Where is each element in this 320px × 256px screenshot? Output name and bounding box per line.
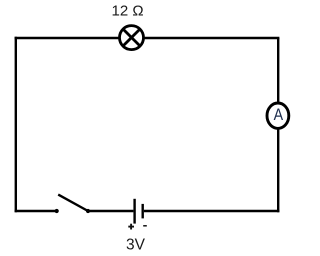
svg-text:12 Ω: 12 Ω (112, 2, 144, 19)
lamp cross stroke 2 (123, 29, 140, 46)
switch S1 right contact dot (86, 209, 90, 213)
battery B1 positive long plate (133, 199, 135, 224)
wire right side (277, 38, 279, 212)
wire top side (15, 37, 280, 39)
wire bottom segment switch to battery (88, 210, 133, 212)
switch S1 left contact dot (55, 209, 59, 213)
battery minus sign (143, 225, 147, 227)
wire bottom segment battery to right corner (144, 210, 280, 212)
switch S1 lever (58, 195, 88, 211)
svg-text:A: A (274, 106, 284, 124)
ammeter A ellipse (267, 103, 289, 128)
lamp cross stroke 1 (123, 29, 140, 46)
lamp U1 (12 ohm) circle (120, 26, 144, 50)
battery B1 negative short plate (141, 204, 143, 219)
wire left side (15, 37, 17, 212)
battery plus sign (128, 226, 134, 228)
svg-text:3V: 3V (126, 237, 146, 254)
wire bottom left segment to switch (15, 210, 57, 212)
